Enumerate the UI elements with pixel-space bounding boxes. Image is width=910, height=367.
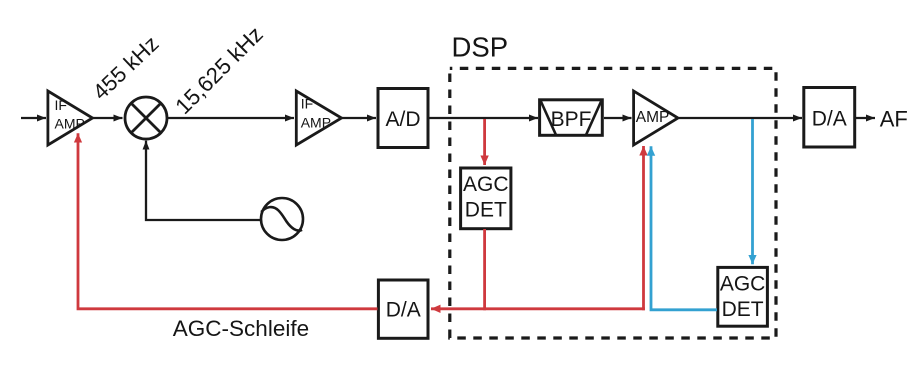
svg-text:AF: AF [880, 107, 908, 132]
wire red: up to AMP [642, 146, 645, 310]
filter BPF [540, 100, 603, 136]
svg-text:D/A: D/A [812, 108, 847, 131]
block A/D [378, 89, 428, 148]
wire: D/A to AF [856, 117, 875, 119]
wire: oscillator to mixer [146, 141, 261, 220]
wire blue: AGC DET 2 to AMP [651, 146, 717, 309]
wire: mixer to IF AMP 2 [168, 117, 294, 119]
wire: input arrow [21, 117, 46, 119]
svg-text:AMP: AMP [301, 115, 331, 131]
svg-text:AGC: AGC [720, 273, 766, 296]
wire red: AGC loop to IF AMP 1 [78, 133, 378, 309]
svg-text:15,625 kHz: 15,625 kHz [170, 22, 267, 119]
svg-text:DET: DET [722, 298, 764, 321]
wire red: tap to AGC DET 1 [483, 119, 486, 165]
svg-text:DSP: DSP [452, 31, 509, 62]
wire: A/D to BPF [429, 117, 538, 119]
svg-text:455 kHz: 455 kHz [88, 31, 164, 105]
svg-text:D/A: D/A [386, 298, 421, 321]
amplifier IF AMP 1 [48, 91, 93, 145]
oscillator [261, 198, 303, 240]
block D/A (AGC) [378, 280, 428, 338]
mixer [125, 97, 167, 139]
block D/A (audio) [804, 88, 855, 148]
block AGC DET 2 [718, 267, 768, 326]
wire: IF AMP 1 to mixer [93, 117, 123, 119]
svg-text:AMP: AMP [55, 115, 85, 131]
svg-text:IF: IF [301, 96, 313, 112]
amplifier AMP [634, 91, 678, 145]
svg-text:IF: IF [55, 97, 67, 113]
svg-text:AGC: AGC [463, 173, 509, 196]
block AGC DET 1 [461, 168, 511, 229]
amplifier IF AMP 2 [296, 91, 341, 145]
svg-text:BPF: BPF [551, 108, 592, 131]
svg-text:A/D: A/D [385, 108, 420, 131]
wire blue: tap to AGC DET 2 [751, 119, 754, 264]
DSP dashed box [450, 68, 776, 338]
wire red: horizontal to D/A [431, 307, 645, 310]
wire: BPF to AMP [604, 117, 632, 119]
svg-text:DET: DET [465, 199, 507, 222]
wire red: AGC DET 1 down [483, 229, 486, 310]
wire: AMP to D/A [679, 117, 802, 119]
wire: IF AMP 2 to A/D [342, 117, 376, 119]
svg-text:AMP: AMP [636, 109, 670, 126]
svg-text:AGC-Schleife: AGC-Schleife [173, 316, 309, 341]
